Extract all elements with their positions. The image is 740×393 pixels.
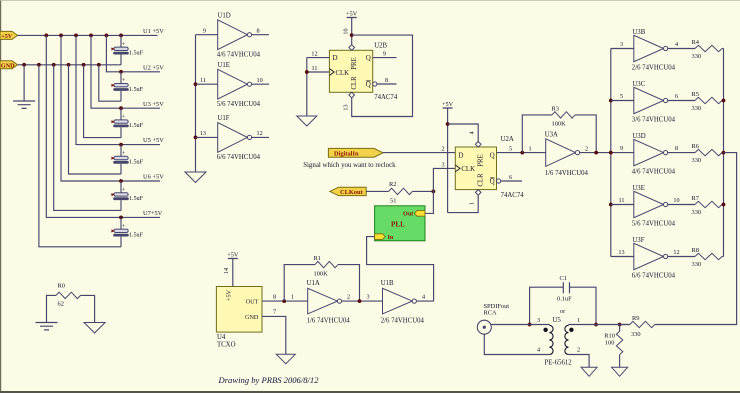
svg-text:2: 2	[585, 146, 588, 153]
power port GND flag	[0, 61, 18, 70]
wire U2B Q pin 9 stub	[373, 50, 397, 57]
junction dot input bus	[609, 151, 613, 155]
svg-text:13: 13	[200, 130, 206, 137]
svg-text:Q: Q	[366, 54, 371, 62]
wire U1B output pin 4 to PLL In	[416, 300, 433, 302]
svg-text:9: 9	[203, 27, 206, 34]
svg-text:11: 11	[200, 77, 206, 84]
ground (triangle) below U2B	[297, 116, 317, 126]
svg-text:74AC74: 74AC74	[374, 94, 398, 101]
svg-text:Out: Out	[403, 211, 414, 218]
svg-text:U3D: U3D	[632, 133, 645, 140]
svg-text:+5V: +5V	[227, 252, 239, 259]
transformer U5 PE-65612	[543, 317, 573, 366]
svg-text:U1A: U1A	[307, 280, 320, 287]
svg-text:330: 330	[631, 331, 641, 338]
sheet border bottom	[0, 391, 740, 393]
op-amp U1B inverter 74VHCU04	[381, 280, 425, 324]
flip-flop U2A 74AC74	[455, 136, 524, 199]
svg-text:RCA: RCA	[484, 309, 498, 316]
svg-text:4/6 74VHCU04: 4/6 74VHCU04	[632, 169, 676, 176]
svg-text:U2B: U2B	[374, 43, 387, 50]
svg-text:+5V: +5V	[1, 33, 13, 40]
resistor R2 51	[366, 181, 433, 205]
wire U2B D/CLK tie to ground	[306, 58, 308, 116]
svg-text:1: 1	[577, 317, 580, 324]
svg-text:9: 9	[383, 50, 386, 57]
svg-text:8: 8	[273, 293, 276, 300]
svg-text:U2A: U2A	[501, 136, 514, 143]
junction dot U1E input	[194, 82, 198, 86]
wire U3A output to inverter bank	[580, 152, 634, 154]
svg-text:1.5uF: 1.5uF	[129, 195, 144, 202]
svg-text:330: 330	[692, 105, 702, 112]
svg-text:1/6 74VHCU04: 1/6 74VHCU04	[545, 170, 589, 177]
wire U1 unused-input bus	[195, 35, 197, 172]
svg-text:U5: U5	[553, 317, 562, 324]
resistor R4 330	[668, 39, 724, 60]
svg-text:100: 100	[605, 339, 615, 346]
wire inverter-bank input bus	[610, 49, 612, 257]
op-amp U3C inverter 74VHCU04	[611, 81, 678, 123]
junction dot U2A PRE branch	[446, 122, 450, 126]
svg-text:U1 +5V: U1 +5V	[143, 28, 164, 35]
svg-text:In: In	[388, 234, 394, 241]
svg-text:U3C: U3C	[632, 81, 645, 88]
ground (triangle) below R10	[612, 367, 628, 376]
svg-text:OUT: OUT	[246, 299, 259, 306]
ground (earth) below GND rail	[13, 65, 35, 109]
svg-text:U2 +5V: U2 +5V	[143, 64, 164, 71]
svg-text:Q: Q	[490, 151, 495, 159]
wire +5V feed to net U6 +5V	[61, 35, 164, 183]
svg-text:8: 8	[385, 77, 388, 84]
wire GND rail	[18, 64, 122, 66]
svg-text:1: 1	[291, 293, 294, 300]
op-amp U1A inverter 74VHCU04	[307, 280, 351, 324]
op-amp U1D inverter 74VHCU04	[196, 13, 270, 59]
svg-text:13: 13	[342, 104, 349, 110]
svg-text:5: 5	[509, 146, 512, 153]
svg-text:U3B: U3B	[632, 29, 645, 36]
svg-text:PRE: PRE	[478, 154, 485, 166]
svg-text:2/6 74VHCU04: 2/6 74VHCU04	[632, 64, 676, 71]
resistor R10 100	[604, 325, 623, 368]
svg-text:U5 +5V: U5 +5V	[143, 137, 164, 144]
svg-text:U3A: U3A	[545, 131, 558, 138]
svg-text:5: 5	[620, 93, 623, 100]
power port +5V flag	[0, 31, 18, 40]
svg-text:R2: R2	[389, 181, 396, 188]
svg-text:2/6 74VHCU04: 2/6 74VHCU04	[381, 317, 425, 324]
svg-text:R3: R3	[552, 106, 559, 113]
power +5V for U2B	[342, 11, 357, 45]
junction dot summing bus	[722, 151, 726, 155]
wire +5V feed to net U5 +5V	[76, 35, 164, 146]
sheet border left	[0, 0, 2, 393]
svg-text:8: 8	[257, 27, 260, 34]
power +5V for U4 TCXO pin 14	[223, 252, 239, 287]
svg-text:1/6 74VHCU04: 1/6 74VHCU04	[307, 317, 351, 324]
wire U2B CLK pin 11	[307, 65, 330, 72]
wire transformer secondary pin 1 to output	[569, 317, 630, 324]
wire U2A Q-bar pin 6 stub	[501, 174, 522, 181]
wire PLL In from U1B output	[367, 237, 434, 302]
op-amp U3D inverter 74VHCU04	[620, 133, 678, 175]
svg-text:U7+5V: U7+5V	[143, 210, 163, 217]
wire U2B PRE-CLR tie to +5V	[352, 35, 413, 116]
wire GND return for C3	[99, 65, 121, 101]
resistor R5 330	[668, 91, 724, 112]
svg-text:1.5uF: 1.5uF	[129, 49, 144, 56]
svg-text:10: 10	[257, 77, 263, 84]
wire summed output down to R9	[655, 153, 737, 325]
capacitor C3 1.5uF	[111, 72, 143, 101]
junction dot U1F input	[194, 136, 198, 140]
svg-text:R4: R4	[692, 39, 700, 46]
ground (triangle) below TCXO	[276, 354, 295, 364]
junction dot summing bus	[722, 99, 726, 103]
svg-text:1.5uF: 1.5uF	[129, 231, 144, 238]
wire +5V feed to net U2 +5V	[106, 35, 164, 73]
svg-text:11: 11	[619, 197, 625, 204]
svg-text:R8: R8	[692, 247, 699, 254]
ground (triangle) below transformer	[581, 367, 597, 376]
svg-text:CLK: CLK	[336, 70, 350, 77]
junction dot R2/PLL/CLK node	[432, 190, 436, 194]
wire TCXO GND pin 7	[262, 309, 286, 355]
svg-text:PRE: PRE	[351, 57, 358, 69]
svg-text:14: 14	[223, 268, 230, 274]
svg-text:4: 4	[675, 41, 678, 48]
junction dots on GND rail	[22, 63, 101, 67]
svg-text:CLR: CLR	[478, 173, 485, 187]
svg-text:6: 6	[675, 93, 678, 100]
junction dot C1 right	[594, 323, 598, 327]
svg-text:4: 4	[537, 346, 540, 353]
svg-text:+: +	[122, 41, 126, 48]
svg-text:3/6 74VHCU04: 3/6 74VHCU04	[632, 116, 676, 123]
svg-text:100K: 100K	[314, 271, 329, 278]
junction dot U1A out / R1	[358, 299, 362, 303]
wire +5V feed to net U7+5V	[46, 35, 162, 219]
svg-text:3: 3	[366, 293, 369, 300]
svg-text:GND: GND	[245, 314, 259, 321]
svg-text:or: or	[560, 308, 565, 315]
junction dot R10 tap	[618, 323, 622, 327]
svg-text:6: 6	[509, 174, 512, 181]
wire transformer secondary pin 2 to ground	[569, 346, 590, 367]
svg-text:3: 3	[441, 161, 444, 168]
svg-text:D: D	[333, 54, 338, 62]
wire U1A output to U1B input pin 3	[342, 293, 383, 301]
svg-text:51: 51	[390, 198, 396, 205]
resistor R9 330	[620, 315, 655, 338]
svg-text:1: 1	[528, 146, 531, 153]
svg-text:U3E: U3E	[632, 185, 644, 192]
svg-text:U6 +5V: U6 +5V	[143, 174, 164, 181]
svg-text:+5V: +5V	[442, 101, 454, 108]
wire RCA center to transformer primary pin 3	[491, 317, 549, 324]
svg-text:2: 2	[441, 146, 444, 153]
svg-text:330: 330	[692, 209, 702, 216]
svg-text:U1D: U1D	[218, 13, 231, 20]
svg-text:U1B: U1B	[381, 280, 394, 287]
wire RCA shell to transformer primary pin 4	[484, 334, 549, 354]
svg-text:62: 62	[58, 301, 64, 308]
capacitor C4 1.5uF	[111, 108, 143, 137]
svg-text:8: 8	[675, 145, 678, 152]
svg-text:330: 330	[692, 261, 702, 268]
wire summing bus right	[723, 49, 725, 257]
svg-text:7: 7	[273, 309, 276, 316]
capacitor C7 1.5uF	[111, 217, 143, 246]
svg-text:3: 3	[620, 41, 623, 48]
capacitor C5 1.5uF	[111, 145, 143, 174]
capacitor C6 1.5uF	[111, 181, 143, 210]
sheet symbol PLL	[375, 206, 425, 241]
junction dot U3A out / R3	[594, 151, 598, 155]
wire U2A Q pin 5 to U3A input pin 1	[497, 146, 546, 153]
ground (triangle) below U1 input bus	[185, 172, 206, 183]
capacitor C1 0.1uF	[530, 275, 596, 324]
junction dots on +5V rail	[44, 34, 123, 38]
svg-text:R10: R10	[604, 332, 615, 339]
svg-text:R0: R0	[58, 283, 65, 290]
svg-text:U3 +5V: U3 +5V	[143, 101, 164, 108]
svg-text:+5V: +5V	[346, 11, 358, 18]
op-amp U1F inverter 74VHCU04	[196, 115, 270, 161]
wire +5V feed to net U3 +5V	[91, 35, 164, 110]
svg-text:330: 330	[692, 53, 702, 60]
svg-text:0.1uF: 0.1uF	[557, 296, 572, 303]
svg-text:100K: 100K	[552, 121, 567, 128]
capacitor C2 1.5uF	[111, 35, 143, 64]
op-amp U3B inverter 74VHCU04	[611, 29, 678, 71]
svg-text:+: +	[122, 114, 126, 121]
op-amp U3A inverter 74VHCU04	[545, 131, 589, 176]
svg-text:+5V: +5V	[226, 289, 233, 301]
svg-text:11: 11	[312, 65, 318, 72]
svg-text:Q: Q	[366, 81, 371, 89]
junction dot summing bus	[722, 203, 726, 207]
svg-text:CLR: CLR	[351, 76, 358, 90]
svg-text:TCXO: TCXO	[217, 341, 236, 348]
svg-text:R9: R9	[632, 315, 639, 322]
svg-text:C1: C1	[560, 275, 567, 282]
svg-text:+: +	[122, 186, 126, 193]
sheet pin Out	[403, 211, 425, 218]
op-amp U3E inverter 74VHCU04	[611, 185, 680, 227]
svg-text:D: D	[458, 151, 463, 159]
resistor R8 330	[668, 247, 724, 268]
svg-text:6/6 74VHCU04: 6/6 74VHCU04	[217, 154, 261, 161]
svg-text:DigitalIn: DigitalIn	[334, 150, 359, 157]
svg-text:GND: GND	[1, 62, 15, 69]
svg-text:3: 3	[537, 317, 540, 324]
resistor R7 330	[668, 195, 724, 216]
svg-text:CLKout: CLKout	[340, 189, 364, 196]
wire TCXO OUT pin 8 to U1A pin 1	[262, 293, 308, 301]
svg-text:CLK: CLK	[461, 166, 475, 173]
junction dot input bus	[609, 99, 613, 103]
svg-text:2: 2	[347, 293, 350, 300]
ground (earth) left of R0	[36, 323, 58, 330]
svg-text:10: 10	[342, 28, 349, 34]
svg-text:U4: U4	[217, 334, 226, 341]
junction dot input bus	[609, 203, 613, 207]
svg-text:6/6 74VHCU04: 6/6 74VHCU04	[632, 272, 676, 279]
svg-text:U1E: U1E	[218, 62, 230, 69]
svg-text:12: 12	[673, 249, 679, 256]
svg-text:74AC74: 74AC74	[501, 192, 525, 199]
flip-flop U2B 74AC74	[329, 43, 397, 102]
op-amp U3F inverter 74VHCU04	[611, 237, 680, 279]
resistor R3 100K feedback	[522, 106, 596, 153]
junction dot C1 left	[528, 323, 532, 327]
svg-text:1.5uF: 1.5uF	[129, 86, 144, 93]
svg-text:Drawing by PRBS 2006/8/12: Drawing by PRBS 2006/8/12	[218, 375, 320, 385]
junction dot U3A input node	[520, 151, 524, 155]
svg-text:2: 2	[577, 346, 580, 353]
port DigitalIn	[328, 148, 383, 157]
svg-text:+: +	[122, 223, 126, 230]
svg-text:5/6 74VHCU04: 5/6 74VHCU04	[632, 220, 676, 227]
resistor R0 62 (ground link)	[47, 283, 95, 323]
svg-text:10: 10	[673, 197, 679, 204]
svg-text:R1: R1	[314, 255, 321, 262]
wire PLL out to U2A CLK pin 3	[426, 161, 456, 213]
wire GND return for C4	[84, 65, 121, 138]
svg-text:4/6 74VHCU04: 4/6 74VHCU04	[217, 51, 261, 58]
svg-text:PE-65612: PE-65612	[545, 360, 573, 367]
svg-text:U1F: U1F	[218, 115, 230, 122]
junction dot U2B CLK tie	[305, 70, 309, 74]
sheet border top	[0, 0, 740, 1]
wire U2A CLR pin 1 tie	[448, 195, 479, 213]
svg-text:5/6 74VHCU04: 5/6 74VHCU04	[217, 101, 261, 108]
ground (triangle) right of R0	[84, 323, 105, 334]
RCA jack SPDIFout	[477, 303, 509, 334]
svg-text:12: 12	[257, 130, 263, 137]
svg-text:13: 13	[618, 249, 624, 256]
svg-text:R6: R6	[692, 143, 699, 150]
resistor R1 100K feedback	[284, 255, 359, 301]
junction dot U2B PRE/CLR tie	[350, 33, 354, 37]
svg-text:1.5uF: 1.5uF	[129, 122, 144, 129]
svg-text:4: 4	[422, 293, 425, 300]
svg-text:4: 4	[469, 131, 476, 134]
svg-text:12: 12	[311, 50, 317, 57]
wire +5V rail / net U1 +5V	[18, 28, 165, 35]
port CLKout	[330, 187, 366, 196]
wire DigitalIn to U2A D pin 2	[383, 146, 455, 153]
svg-text:PLL: PLL	[391, 221, 405, 229]
wire U2A PRE pin 4 tie	[448, 124, 479, 142]
junction dot R1 left	[282, 299, 286, 303]
svg-text:1: 1	[469, 202, 476, 205]
svg-text:R5: R5	[692, 91, 699, 98]
svg-text:1.5uF: 1.5uF	[129, 159, 144, 166]
wire U2B Q-bar pin 8 stub	[377, 77, 397, 84]
power +5V for U2A	[442, 101, 454, 212]
svg-text:330: 330	[692, 157, 702, 164]
op-amp U1E inverter 74VHCU04	[196, 62, 270, 108]
svg-text:Q: Q	[490, 178, 495, 186]
svg-text:9: 9	[620, 145, 623, 152]
svg-text:+: +	[122, 150, 126, 157]
wire GND return for C5	[69, 65, 122, 174]
oscillator U4 TCXO	[216, 287, 262, 349]
wire U2B D pin 12	[307, 50, 330, 57]
sheet pin In	[375, 234, 394, 241]
resistor R6 330	[668, 143, 724, 164]
svg-text:R7: R7	[692, 195, 700, 202]
svg-text:Signal which you want to reclo: Signal which you want to reclock	[303, 162, 396, 169]
wire GND return for C6	[54, 65, 121, 211]
svg-text:+: +	[122, 77, 126, 84]
wire GND return for C7	[39, 65, 121, 247]
svg-text:U3F: U3F	[632, 237, 644, 244]
